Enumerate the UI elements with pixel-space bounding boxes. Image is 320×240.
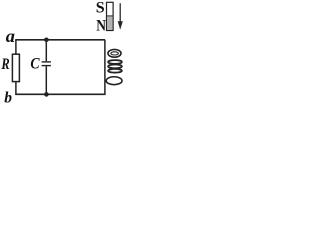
svg-text:a: a: [6, 26, 15, 46]
svg-text:C: C: [30, 55, 40, 72]
svg-text:b: b: [4, 89, 12, 103]
svg-text:R: R: [1, 56, 11, 74]
svg-text:S: S: [96, 0, 105, 16]
svg-text:N: N: [96, 18, 106, 35]
